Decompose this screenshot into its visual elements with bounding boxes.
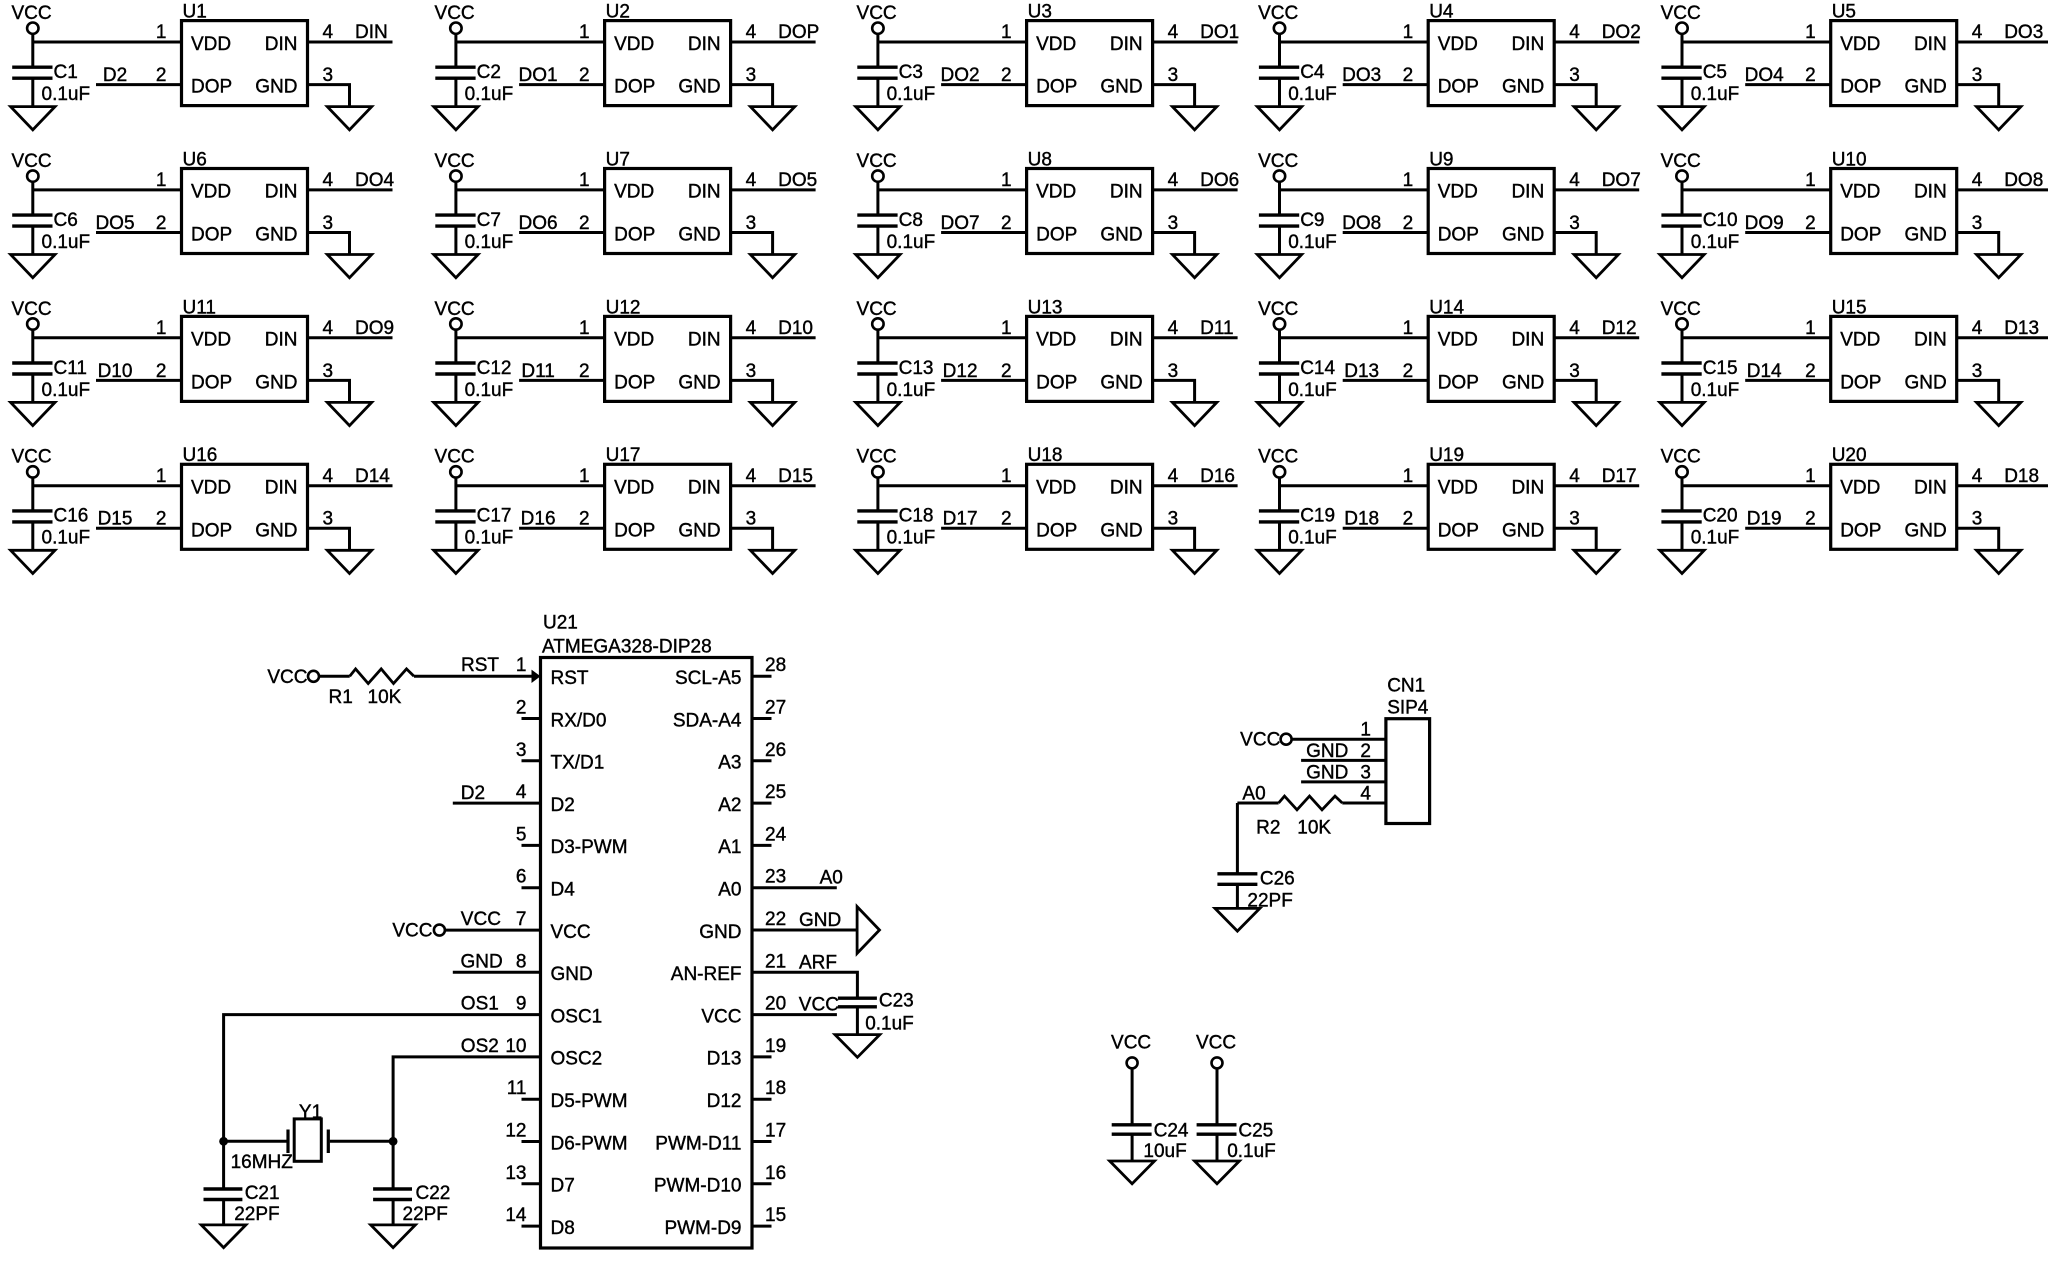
svg-text:DOP: DOP bbox=[614, 225, 655, 246]
schematic unit 1: IC U1 with capacitor C1, VCC and grounds bbox=[11, 2, 393, 130]
ground (below C18) bbox=[856, 550, 900, 573]
svg-text:U8: U8 bbox=[1028, 149, 1052, 170]
svg-text:DIN: DIN bbox=[1110, 34, 1143, 55]
svg-text:C22: C22 bbox=[416, 1183, 451, 1204]
svg-text:D15: D15 bbox=[778, 466, 813, 487]
svg-text:4: 4 bbox=[1972, 170, 1983, 191]
wire VCC to U15 pin 1 bbox=[1682, 336, 1831, 339]
svg-text:D18: D18 bbox=[2004, 466, 2039, 487]
wire OSC1 to crystal left node bbox=[224, 1015, 541, 1142]
svg-text:DIN: DIN bbox=[1511, 330, 1544, 351]
ground (below C12) bbox=[434, 402, 478, 425]
svg-text:DO1: DO1 bbox=[519, 65, 558, 86]
wire U9 pin 4 to net DO7 bbox=[1554, 188, 1639, 191]
svg-text:C23: C23 bbox=[879, 991, 914, 1012]
wire C25 to ground bbox=[1216, 1134, 1219, 1160]
wire net GND to U21 pin 8 bbox=[453, 971, 541, 974]
svg-text:VCC: VCC bbox=[11, 299, 51, 320]
svg-text:U5: U5 bbox=[1832, 2, 1856, 23]
svg-text:3: 3 bbox=[1168, 213, 1179, 234]
wire C11 to ground bbox=[31, 374, 34, 402]
schematic unit 8: IC U8 with capacitor C8, VCC and grounds bbox=[856, 149, 1239, 277]
wire net DO1 to U2 pin 2 bbox=[519, 83, 605, 86]
svg-text:4: 4 bbox=[1569, 22, 1580, 43]
svg-text:2: 2 bbox=[1805, 213, 1816, 234]
power symbol VCC (unit U2) bbox=[435, 3, 475, 34]
capacitor C19 bbox=[1259, 511, 1299, 522]
svg-text:DO4: DO4 bbox=[355, 170, 395, 191]
svg-text:D17: D17 bbox=[943, 509, 978, 530]
schematic unit 9: IC U9 with capacitor C9, VCC and grounds bbox=[1257, 149, 1640, 277]
wire VCC to C13 bbox=[876, 330, 879, 363]
svg-text:GND: GND bbox=[255, 520, 297, 541]
svg-text:DO3: DO3 bbox=[2004, 22, 2043, 43]
IC U17 (VDD/DIN/DOP/GND) bbox=[579, 445, 757, 549]
wire VCC to U14 pin 1 bbox=[1280, 336, 1429, 339]
svg-text:0.1uF: 0.1uF bbox=[465, 232, 514, 253]
svg-text:DOP: DOP bbox=[614, 520, 655, 541]
power symbol VCC (unit U7) bbox=[435, 151, 475, 182]
ground (U16 pin 3) bbox=[327, 550, 371, 573]
svg-text:VDD: VDD bbox=[1840, 182, 1880, 203]
svg-text:C21: C21 bbox=[245, 1183, 280, 1204]
wire U21 pin 23 to net A0 bbox=[752, 886, 837, 889]
svg-text:1: 1 bbox=[1403, 22, 1414, 43]
svg-text:13: 13 bbox=[505, 1163, 526, 1184]
svg-text:2: 2 bbox=[1001, 65, 1012, 86]
svg-text:16: 16 bbox=[765, 1163, 786, 1184]
svg-text:10K: 10K bbox=[1297, 818, 1331, 839]
wire U12 pin 4 to net D10 bbox=[731, 336, 816, 339]
ground (C26) bbox=[1215, 908, 1260, 931]
svg-text:PWM-D11: PWM-D11 bbox=[655, 1133, 741, 1154]
ground (U15 pin 3) bbox=[1977, 402, 2021, 425]
svg-text:GND: GND bbox=[1100, 372, 1142, 393]
wire net D2 to U1 pin 2 bbox=[96, 83, 182, 86]
wire VCC to C19 bbox=[1278, 478, 1281, 511]
wire VCC to U19 pin 1 bbox=[1280, 484, 1429, 487]
wire U13 pin 4 to net D11 bbox=[1153, 336, 1238, 339]
wire C3 to ground bbox=[876, 78, 879, 106]
svg-text:OS1: OS1 bbox=[461, 994, 499, 1015]
wire VCC to U17 pin 1 bbox=[456, 484, 605, 487]
svg-text:1: 1 bbox=[1001, 22, 1012, 43]
ground (below C16) bbox=[11, 550, 55, 573]
wire R2 to CN1 pin 4 bbox=[1342, 802, 1386, 805]
svg-text:RST: RST bbox=[461, 655, 499, 676]
svg-text:DIN: DIN bbox=[688, 330, 721, 351]
svg-text:PWM-D9: PWM-D9 bbox=[664, 1218, 741, 1239]
wire U4 pin 4 to net DO2 bbox=[1554, 41, 1639, 44]
svg-text:GND: GND bbox=[678, 225, 720, 246]
IC U8 (VDD/DIN/DOP/GND) bbox=[1001, 149, 1179, 253]
power symbol VCC (unit U9) bbox=[1258, 151, 1298, 182]
wire U17 pin 4 to net D15 bbox=[731, 484, 816, 487]
svg-text:DOP: DOP bbox=[1036, 372, 1077, 393]
IC U9 (VDD/DIN/DOP/GND) bbox=[1403, 149, 1581, 253]
svg-text:4: 4 bbox=[1168, 318, 1179, 339]
schematic unit 15: IC U15 with capacitor C15, VCC and grounds bbox=[1660, 297, 2048, 425]
svg-text:0.1uF: 0.1uF bbox=[42, 380, 91, 401]
wire C13 to ground bbox=[876, 374, 879, 402]
power symbol VCC (unit U20) bbox=[1661, 447, 1701, 478]
svg-text:3: 3 bbox=[1972, 65, 1983, 86]
svg-text:0.1uF: 0.1uF bbox=[1288, 380, 1337, 401]
wire U13 pin 3 to ground bbox=[1153, 380, 1195, 401]
svg-text:2: 2 bbox=[1805, 509, 1816, 530]
ground (below C17) bbox=[434, 550, 478, 573]
IC U21 ATMEGA328-DIP28 bbox=[541, 613, 753, 1249]
svg-text:D2: D2 bbox=[551, 795, 575, 816]
svg-text:DO9: DO9 bbox=[1745, 213, 1784, 234]
svg-text:U19: U19 bbox=[1429, 445, 1464, 466]
wire C22 to ground bbox=[392, 1200, 395, 1225]
power symbol VCC (unit U19) bbox=[1258, 447, 1298, 478]
svg-text:U11: U11 bbox=[183, 297, 216, 318]
IC U4 (VDD/DIN/DOP/GND) bbox=[1403, 2, 1581, 106]
svg-text:VCC: VCC bbox=[11, 3, 51, 24]
svg-text:DIN: DIN bbox=[265, 34, 298, 55]
svg-text:14: 14 bbox=[505, 1205, 527, 1226]
svg-text:DIN: DIN bbox=[688, 478, 721, 499]
svg-text:D4: D4 bbox=[551, 880, 576, 901]
IC U7 (VDD/DIN/DOP/GND) bbox=[579, 149, 757, 253]
wire A0 node to R2 bbox=[1237, 802, 1278, 805]
wire net D16 to U17 pin 2 bbox=[519, 527, 605, 530]
wire VCC to C16 bbox=[31, 478, 34, 511]
svg-text:VCC: VCC bbox=[1111, 1033, 1151, 1054]
svg-text:GND: GND bbox=[1904, 77, 1946, 98]
svg-text:DOP: DOP bbox=[1036, 225, 1077, 246]
svg-text:18: 18 bbox=[765, 1078, 786, 1099]
wire C5 to ground bbox=[1681, 78, 1684, 106]
wire net D14 to U15 pin 2 bbox=[1745, 379, 1831, 382]
svg-text:DIN: DIN bbox=[688, 182, 721, 203]
svg-text:U4: U4 bbox=[1429, 2, 1454, 23]
svg-text:VDD: VDD bbox=[614, 182, 654, 203]
power symbol VCC (unit U1) bbox=[11, 3, 51, 34]
ground (U12 pin 3) bbox=[750, 402, 794, 425]
svg-text:VCC: VCC bbox=[857, 151, 897, 172]
svg-text:U16: U16 bbox=[183, 445, 218, 466]
capacitor C14 bbox=[1259, 363, 1299, 374]
wire U11 pin 4 to net DO9 bbox=[308, 336, 393, 339]
wire C14 to ground bbox=[1278, 374, 1281, 402]
svg-text:DO5: DO5 bbox=[95, 213, 134, 234]
svg-text:DIN: DIN bbox=[1511, 478, 1544, 499]
svg-text:4: 4 bbox=[746, 170, 757, 191]
svg-text:0.1uF: 0.1uF bbox=[42, 84, 91, 105]
svg-text:GND: GND bbox=[1100, 225, 1142, 246]
wire U19 pin 3 to ground bbox=[1554, 528, 1596, 549]
svg-text:3: 3 bbox=[1168, 509, 1179, 530]
capacitor C13 bbox=[857, 363, 897, 374]
wire VCC to C7 bbox=[454, 182, 457, 215]
svg-text:U12: U12 bbox=[606, 297, 641, 318]
svg-text:VCC: VCC bbox=[11, 151, 51, 172]
svg-text:2: 2 bbox=[156, 509, 167, 530]
svg-text:RST: RST bbox=[551, 668, 589, 689]
svg-text:U1: U1 bbox=[183, 2, 207, 23]
svg-text:1: 1 bbox=[1805, 318, 1816, 339]
wire C1 to ground bbox=[31, 78, 34, 106]
power symbol VCC (unit U3) bbox=[857, 3, 897, 34]
svg-text:23: 23 bbox=[765, 867, 786, 888]
ground (below C8) bbox=[856, 255, 900, 278]
svg-text:2: 2 bbox=[516, 698, 527, 719]
svg-text:VDD: VDD bbox=[1036, 330, 1076, 351]
wire U10 pin 4 to net DO8 bbox=[1957, 188, 2048, 191]
wire U21 pin 21 to C23 bbox=[752, 972, 857, 996]
svg-text:DOP: DOP bbox=[614, 77, 655, 98]
wire VCC to CN1 pin 1 bbox=[1292, 738, 1386, 741]
svg-text:GND: GND bbox=[799, 910, 841, 931]
wire U6 pin 3 to ground bbox=[308, 233, 350, 254]
svg-text:VCC: VCC bbox=[11, 447, 51, 468]
wire C7 to ground bbox=[454, 226, 457, 254]
wire net D19 to U20 pin 2 bbox=[1745, 527, 1831, 530]
svg-text:SDA-A4: SDA-A4 bbox=[673, 710, 742, 731]
svg-text:1: 1 bbox=[156, 170, 167, 191]
svg-text:1: 1 bbox=[579, 318, 590, 339]
svg-text:DIN: DIN bbox=[265, 478, 298, 499]
svg-text:DOP: DOP bbox=[1438, 520, 1479, 541]
schematic unit 4: IC U4 with capacitor C4, VCC and grounds bbox=[1257, 2, 1640, 130]
wire C4 to ground bbox=[1278, 78, 1281, 106]
svg-text:2: 2 bbox=[1001, 213, 1012, 234]
svg-text:C11: C11 bbox=[54, 358, 87, 379]
svg-text:4: 4 bbox=[1972, 22, 1983, 43]
svg-text:DO7: DO7 bbox=[1602, 170, 1641, 191]
power symbol VCC (unit U13) bbox=[857, 299, 897, 330]
svg-text:U6: U6 bbox=[183, 149, 207, 170]
wire net DO3 to U4 pin 2 bbox=[1343, 83, 1429, 86]
power symbol VCC (C25) bbox=[1196, 1033, 1236, 1069]
power symbol VCC (U21 pin 7) bbox=[392, 920, 445, 941]
svg-text:VDD: VDD bbox=[1036, 182, 1076, 203]
svg-text:4: 4 bbox=[1972, 318, 1983, 339]
wire U2 pin 3 to ground bbox=[731, 85, 773, 106]
svg-text:C18: C18 bbox=[899, 506, 934, 527]
wire VCC to C4 bbox=[1278, 34, 1281, 67]
wire C17 to ground bbox=[454, 522, 457, 550]
svg-text:3: 3 bbox=[1569, 213, 1580, 234]
wire VCC circle to U21 pin 7 bbox=[445, 929, 541, 932]
schematic unit 14: IC U14 with capacitor C14, VCC and grounds bbox=[1257, 297, 1639, 425]
svg-text:D19: D19 bbox=[1747, 509, 1782, 530]
wire U3 pin 3 to ground bbox=[1153, 85, 1195, 106]
svg-text:4: 4 bbox=[746, 466, 757, 487]
ground (below C11) bbox=[11, 402, 55, 425]
svg-text:DO6: DO6 bbox=[519, 213, 558, 234]
svg-text:C15: C15 bbox=[1703, 358, 1738, 379]
ground (C22) bbox=[371, 1225, 416, 1248]
schematic unit 11: IC U11 with capacitor C11, VCC and grounds bbox=[11, 297, 394, 425]
svg-text:U7: U7 bbox=[606, 149, 630, 170]
svg-text:0.1uF: 0.1uF bbox=[1288, 232, 1337, 253]
capacitor C26 bbox=[1217, 874, 1257, 885]
junction node (crystal left) bbox=[219, 1137, 228, 1146]
svg-text:6: 6 bbox=[516, 867, 527, 888]
ground (below C2) bbox=[434, 107, 478, 130]
svg-text:D10: D10 bbox=[778, 318, 813, 339]
svg-text:U15: U15 bbox=[1832, 297, 1867, 318]
svg-text:3: 3 bbox=[323, 361, 334, 382]
capacitor C22 bbox=[373, 1189, 412, 1200]
svg-text:2: 2 bbox=[579, 509, 590, 530]
svg-text:3: 3 bbox=[1569, 361, 1580, 382]
power symbol VCC (unit U6) bbox=[11, 151, 51, 182]
ground (U18 pin 3) bbox=[1172, 550, 1216, 573]
resistor R2 bbox=[1279, 796, 1343, 810]
wire net D13 to U14 pin 2 bbox=[1343, 379, 1429, 382]
svg-text:DIN: DIN bbox=[1914, 330, 1947, 351]
wire C16 to ground bbox=[31, 522, 34, 550]
svg-text:D2: D2 bbox=[461, 783, 485, 804]
wire C24 to ground bbox=[1131, 1134, 1134, 1160]
svg-text:1: 1 bbox=[579, 466, 590, 487]
ground (U3 pin 3) bbox=[1172, 107, 1216, 130]
svg-text:2: 2 bbox=[156, 213, 167, 234]
svg-text:0.1uF: 0.1uF bbox=[465, 380, 514, 401]
svg-text:GND: GND bbox=[678, 77, 720, 98]
wire U8 pin 3 to ground bbox=[1153, 233, 1195, 254]
svg-text:VDD: VDD bbox=[614, 34, 654, 55]
wire net DO7 to U8 pin 2 bbox=[941, 231, 1027, 234]
svg-text:D17: D17 bbox=[1602, 466, 1637, 487]
connector CN1 SIP4 bbox=[1386, 676, 1430, 824]
IC U1 (VDD/DIN/DOP/GND) bbox=[156, 2, 334, 106]
svg-text:C24: C24 bbox=[1154, 1121, 1189, 1142]
wire VCC to C9 bbox=[1278, 182, 1281, 215]
svg-text:DIN: DIN bbox=[355, 22, 388, 43]
capacitor C2 bbox=[435, 67, 475, 78]
svg-text:3: 3 bbox=[746, 509, 757, 530]
wire VCC to U10 pin 1 bbox=[1682, 188, 1831, 191]
ground (below C13) bbox=[856, 402, 900, 425]
svg-text:DO8: DO8 bbox=[2004, 170, 2043, 191]
wire U18 pin 4 to net D16 bbox=[1153, 484, 1238, 487]
svg-text:22PF: 22PF bbox=[403, 1204, 448, 1225]
wire R1 to U21 pin 1 bbox=[414, 675, 532, 678]
capacitor C11 bbox=[12, 363, 52, 374]
svg-text:U9: U9 bbox=[1429, 149, 1453, 170]
wire U16 pin 3 to ground bbox=[308, 528, 350, 549]
wire C26 to ground bbox=[1236, 884, 1239, 908]
power symbol VCC (unit U18) bbox=[857, 447, 897, 478]
svg-text:DIN: DIN bbox=[1511, 182, 1544, 203]
svg-text:D6-PWM: D6-PWM bbox=[551, 1133, 628, 1154]
svg-text:3: 3 bbox=[323, 509, 334, 530]
capacitor C15 bbox=[1661, 363, 1701, 374]
svg-text:0.1uF: 0.1uF bbox=[465, 84, 514, 105]
svg-text:U18: U18 bbox=[1028, 445, 1063, 466]
svg-text:VDD: VDD bbox=[191, 330, 231, 351]
svg-text:3: 3 bbox=[1569, 65, 1580, 86]
capacitor C17 bbox=[435, 511, 475, 522]
svg-text:A1: A1 bbox=[718, 837, 741, 858]
svg-text:GND: GND bbox=[551, 964, 593, 985]
svg-text:VDD: VDD bbox=[614, 478, 654, 499]
wire U4 pin 3 to ground bbox=[1554, 85, 1596, 106]
wire VCC to U7 pin 1 bbox=[456, 188, 605, 191]
svg-text:4: 4 bbox=[746, 22, 757, 43]
svg-text:DIN: DIN bbox=[1511, 34, 1544, 55]
svg-text:VDD: VDD bbox=[191, 182, 231, 203]
wire VCC to R1 bbox=[319, 675, 350, 678]
svg-text:U3: U3 bbox=[1028, 2, 1052, 23]
svg-text:DO3: DO3 bbox=[1342, 65, 1381, 86]
svg-text:4: 4 bbox=[516, 782, 527, 803]
svg-text:2: 2 bbox=[1001, 361, 1012, 382]
svg-text:DO1: DO1 bbox=[1200, 22, 1239, 43]
capacitor C24 bbox=[1112, 1125, 1152, 1134]
svg-text:26: 26 bbox=[765, 740, 786, 761]
svg-text:DOP: DOP bbox=[191, 372, 232, 393]
schematic unit 18: IC U18 with capacitor C18, VCC and grounds bbox=[856, 445, 1238, 573]
svg-text:A0: A0 bbox=[1242, 783, 1265, 804]
svg-text:C13: C13 bbox=[899, 358, 934, 379]
svg-text:4: 4 bbox=[1569, 170, 1580, 191]
wire U19 pin 4 to net D17 bbox=[1554, 484, 1639, 487]
svg-text:4: 4 bbox=[1168, 466, 1179, 487]
U21 right pin numbers 28-15 bbox=[765, 655, 787, 1226]
svg-text:D13: D13 bbox=[707, 1049, 742, 1070]
svg-text:D12: D12 bbox=[943, 361, 978, 382]
svg-text:21: 21 bbox=[765, 951, 786, 972]
ground (below C1) bbox=[11, 107, 55, 130]
svg-text:DOP: DOP bbox=[1840, 77, 1881, 98]
svg-text:DIN: DIN bbox=[265, 330, 298, 351]
wire U14 pin 3 to ground bbox=[1554, 380, 1596, 401]
svg-text:3: 3 bbox=[1168, 65, 1179, 86]
wire net D18 to U19 pin 2 bbox=[1343, 527, 1429, 530]
capacitor C23 bbox=[838, 998, 877, 1007]
wire C9 to ground bbox=[1278, 226, 1281, 254]
wire net D10 to U11 pin 2 bbox=[96, 379, 182, 382]
schematic unit 17: IC U17 with capacitor C17, VCC and grounds bbox=[434, 445, 816, 573]
wire VCC to C6 bbox=[31, 182, 34, 215]
svg-text:4: 4 bbox=[1168, 22, 1179, 43]
capacitor C12 bbox=[435, 363, 475, 374]
svg-text:DIN: DIN bbox=[265, 182, 298, 203]
IC U16 (VDD/DIN/DOP/GND) bbox=[156, 445, 334, 549]
svg-text:U17: U17 bbox=[606, 445, 641, 466]
svg-text:C3: C3 bbox=[899, 62, 923, 83]
ground (U10 pin 3) bbox=[1977, 255, 2021, 278]
capacitor C1 bbox=[12, 67, 52, 78]
svg-text:ATMEGA328-DIP28: ATMEGA328-DIP28 bbox=[542, 637, 712, 658]
svg-text:DOP: DOP bbox=[1438, 77, 1479, 98]
wire U21 pin 22 to GND flag bbox=[752, 929, 857, 932]
svg-text:2: 2 bbox=[1001, 509, 1012, 530]
schematic unit 19: IC U19 with capacitor C19, VCC and grounds bbox=[1257, 445, 1639, 573]
resistor R1 bbox=[350, 669, 414, 684]
ground (below C9) bbox=[1257, 255, 1301, 278]
svg-text:R1: R1 bbox=[329, 687, 353, 708]
svg-text:DO2: DO2 bbox=[1602, 22, 1641, 43]
capacitor C10 bbox=[1661, 215, 1701, 226]
svg-text:2: 2 bbox=[1403, 65, 1414, 86]
wire C6 to ground bbox=[31, 226, 34, 254]
svg-text:2: 2 bbox=[156, 65, 167, 86]
svg-text:C7: C7 bbox=[477, 210, 501, 231]
svg-text:C16: C16 bbox=[54, 506, 89, 527]
svg-text:VCC: VCC bbox=[1661, 299, 1701, 320]
wire net DO9 to U10 pin 2 bbox=[1745, 231, 1831, 234]
svg-text:3: 3 bbox=[1168, 361, 1179, 382]
ground (C23) bbox=[835, 1035, 880, 1058]
